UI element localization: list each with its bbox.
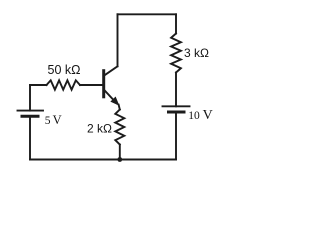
wire collector riser bbox=[117, 14, 119, 66]
wire left column lower bbox=[29, 116, 31, 159]
battery V2 10V bbox=[163, 106, 190, 112]
svg-text:50 kΩ: 50 kΩ bbox=[48, 63, 81, 77]
wire base right segment bbox=[80, 84, 103, 86]
svg-text:2 kΩ: 2 kΩ bbox=[87, 122, 112, 136]
wire left column upper bbox=[29, 85, 31, 111]
svg-text:3 kΩ: 3 kΩ bbox=[184, 46, 209, 60]
wire emitter to rail bbox=[119, 145, 121, 160]
wire top rail bbox=[118, 13, 177, 15]
wire right column lower bbox=[175, 112, 177, 160]
node junction emitter-rail bbox=[117, 157, 122, 162]
resistor R2 2 kOhm bbox=[115, 110, 124, 145]
transistor Q1 bbox=[104, 66, 119, 104]
svg-text:10V: 10V bbox=[188, 108, 212, 123]
wire base left segment bbox=[30, 84, 47, 86]
wire right column upper bbox=[175, 14, 177, 33]
wire right column middle bbox=[175, 73, 177, 107]
resistor R3 3 kOhm bbox=[171, 34, 181, 73]
battery V1 5V bbox=[18, 111, 44, 117]
wire bottom rail bbox=[30, 159, 176, 161]
resistor R1 50 kOhm bbox=[47, 80, 81, 89]
svg-text:5V: 5V bbox=[45, 113, 62, 127]
wire emitter vertical bbox=[119, 105, 120, 110]
